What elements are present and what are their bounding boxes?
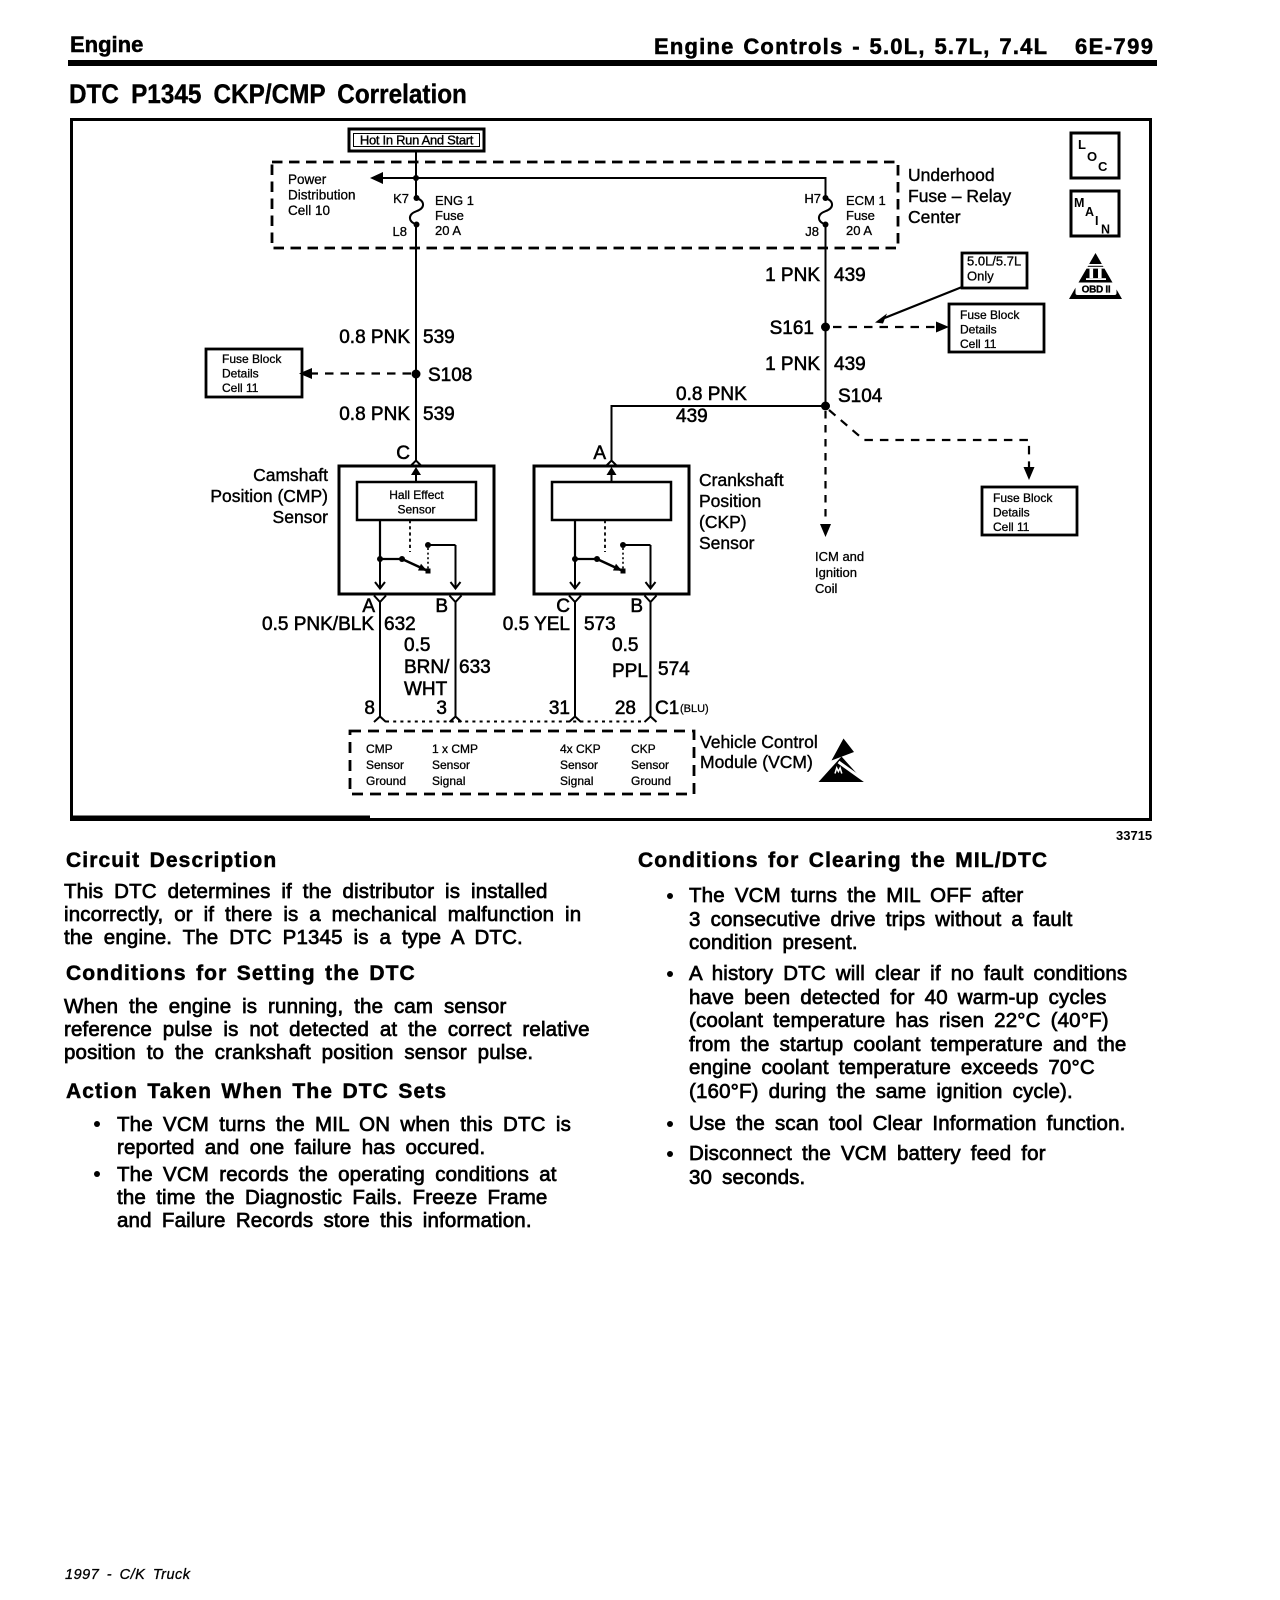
- pin K7: [393, 191, 409, 206]
- svg-text:Sensor: Sensor: [560, 758, 598, 772]
- svg-text:Sensor: Sensor: [397, 503, 435, 517]
- pin C label at CMP sensor: [396, 443, 410, 464]
- svg-text:ICM and: ICM and: [815, 549, 864, 564]
- left column text: [66, 849, 277, 873]
- node: Hot In Run And Start: [349, 129, 484, 151]
- svg-text:632: 632: [384, 614, 416, 635]
- label: 0.8 PNK 439: [676, 384, 747, 427]
- svg-text:8: 8: [364, 698, 375, 719]
- dashed link S108 to left fuse block details: [299, 368, 411, 379]
- wire: 1 PNK 439 from ECM1 fuse to S161: [825, 225, 827, 328]
- svg-text:Vehicle Control: Vehicle Control: [700, 732, 818, 752]
- splice S161: [770, 318, 830, 339]
- node: Fuse Block Details Cell 11 (upper right): [949, 304, 1044, 352]
- svg-text:Details: Details: [993, 506, 1030, 520]
- label: Crankshaft Position (CKP) Sensor: [699, 470, 784, 553]
- fuse ECM 1 20A (H7/J8): [819, 195, 832, 228]
- label: CMP Sensor Ground: [366, 742, 406, 788]
- pin 28 label: [615, 698, 636, 719]
- label: 0.5 PPL 574: [612, 635, 690, 682]
- junction at ENG1 fuse tap: [413, 175, 419, 181]
- connector fork at VCM pin 8: [374, 717, 386, 723]
- label: 4x CKP Sensor Signal: [560, 742, 601, 788]
- svg-text:O: O: [1087, 149, 1097, 164]
- svg-text:28: 28: [615, 698, 636, 719]
- label: 0.8 PNK 539 (upper): [339, 327, 454, 348]
- page title: [69, 79, 467, 110]
- CKP internal arrow from pickup to pin A: [607, 467, 617, 482]
- wire: CKP pin B to VCM pin 28: [650, 602, 652, 717]
- wire down to ENG1 fuse: [415, 178, 417, 198]
- label: 0.5 PNK/BLK 632: [262, 614, 416, 635]
- CKP sensor box: [534, 466, 689, 594]
- svg-text:Coil: Coil: [815, 581, 838, 596]
- connector fork at VCM pin 31: [569, 717, 581, 723]
- svg-text:439: 439: [834, 354, 866, 375]
- label: 0.5 BRN/WHT 633: [404, 635, 491, 700]
- svg-text:1 PNK: 1 PNK: [765, 354, 820, 375]
- label: ENG 1 Fuse 20 A: [435, 193, 474, 238]
- dotted connector face line: [386, 721, 644, 723]
- terminal chevron at CMP pin C: [411, 461, 422, 467]
- svg-text:ENG 1: ENG 1: [435, 193, 474, 208]
- svg-text:S108: S108: [428, 365, 472, 386]
- svg-text:Fuse Block: Fuse Block: [960, 308, 1020, 322]
- svg-text:A: A: [1085, 205, 1094, 219]
- svg-text:633: 633: [459, 657, 491, 678]
- pin 3 label: [436, 698, 447, 719]
- svg-text:539: 539: [423, 327, 455, 348]
- pin 31 label: [549, 698, 570, 719]
- CMP hall effect sensor box: [357, 482, 476, 520]
- svg-text:M: M: [1074, 196, 1084, 210]
- wire: CMP pin A to VCM pin 8: [379, 602, 381, 717]
- symbol: MAIN box: [1071, 191, 1119, 237]
- svg-text:L: L: [1078, 137, 1086, 152]
- svg-text:Fuse Block: Fuse Block: [993, 491, 1053, 505]
- svg-text:Only: Only: [967, 269, 994, 284]
- svg-text:3: 3: [436, 698, 447, 719]
- wire: 0.8 PNK 439 from S104 to CKP sensor pin A: [612, 406, 826, 460]
- svg-text:439: 439: [834, 265, 866, 286]
- svg-text:539: 539: [423, 404, 455, 425]
- svg-text:PPL: PPL: [612, 661, 648, 682]
- node: 5.0L/5.7L Only box: [962, 253, 1027, 288]
- arrow from 5.0L/5.7L Only box to dashed link: [875, 287, 962, 324]
- svg-text:WHT: WHT: [404, 679, 448, 700]
- svg-text:Hall Effect: Hall Effect: [389, 488, 444, 502]
- dashed link S161 to fuse block details: [833, 322, 949, 333]
- pin H7: [804, 191, 821, 206]
- node: Fuse Block Details Cell 11 (left): [206, 349, 302, 397]
- splice S104: [821, 386, 883, 411]
- wire: feed line turns down to ECM1 fuse: [825, 177, 827, 198]
- symbol: OBD II triangle: [1069, 253, 1122, 299]
- svg-text:Position: Position: [699, 491, 761, 511]
- label: Power Distribution Cell 10: [288, 172, 356, 218]
- terminal fork at CMP pin A: [374, 596, 386, 603]
- pin A label below CMP: [362, 596, 375, 617]
- footer: [65, 1567, 191, 1583]
- label: ICM and Ignition Coil: [815, 549, 864, 596]
- terminal fork at CKP pin C: [569, 596, 581, 603]
- VCM dashed box: [350, 731, 694, 794]
- symbol: ESD notice triangles: [819, 739, 867, 783]
- svg-text:L8: L8: [393, 224, 407, 239]
- svg-text:B: B: [435, 596, 448, 617]
- svg-text:Fuse: Fuse: [846, 208, 875, 223]
- header left: Engine: [70, 32, 143, 58]
- wire from Hot In Run box down to feed line: [415, 151, 417, 178]
- label: 0.5 YEL 573: [503, 614, 616, 635]
- svg-text:574: 574: [658, 659, 690, 680]
- svg-text:Ground: Ground: [366, 774, 406, 788]
- wire: CMP pin B to VCM pin 3: [455, 602, 457, 717]
- pin B label below CMP: [435, 596, 448, 617]
- wire: 0.8 PNK 539 from ENG1 fuse through S108 to CMP pin C: [415, 225, 417, 461]
- svg-text:573: 573: [584, 614, 616, 635]
- svg-text:Ground: Ground: [631, 774, 671, 788]
- svg-text:Underhood: Underhood: [908, 165, 995, 185]
- connector C1 (BLU) label: [655, 698, 709, 719]
- label: CKP Sensor Ground: [631, 742, 671, 788]
- label: 1 x CMP Sensor Signal: [432, 742, 478, 788]
- svg-text:Power: Power: [288, 172, 327, 187]
- pin A label at CKP sensor: [593, 443, 606, 464]
- svg-text:20 A: 20 A: [435, 223, 461, 238]
- figure number 33715: [1116, 828, 1152, 843]
- svg-text:ECM 1: ECM 1: [846, 193, 886, 208]
- svg-text:I: I: [1095, 214, 1098, 228]
- svg-text:0.5 YEL: 0.5 YEL: [503, 614, 570, 635]
- svg-text:Sensor: Sensor: [631, 758, 669, 772]
- svg-text:S104: S104: [838, 386, 883, 407]
- svg-text:Fuse Block: Fuse Block: [222, 352, 282, 366]
- svg-text:0.8 PNK: 0.8 PNK: [339, 327, 410, 348]
- svg-text:Camshaft: Camshaft: [253, 465, 328, 485]
- terminal fork at CKP pin B: [645, 596, 657, 603]
- wire: 1 PNK 439 from S161 to S104: [825, 327, 827, 406]
- svg-text:(CKP): (CKP): [699, 512, 747, 532]
- CKP internal switch: [570, 520, 656, 589]
- symbol: LOC box: [1071, 133, 1119, 178]
- label: 1 PNK 439 (lower): [765, 354, 866, 375]
- label: ECM 1 Fuse 20 A: [846, 193, 886, 238]
- svg-text:20 A: 20 A: [846, 223, 872, 238]
- svg-text:A: A: [593, 443, 606, 464]
- dashed drop from S104 to ICM and Ignition Coil: [820, 411, 831, 537]
- svg-text:0.5: 0.5: [404, 635, 430, 656]
- svg-text:Module (VCM): Module (VCM): [700, 752, 813, 772]
- svg-text:0.8 PNK: 0.8 PNK: [676, 384, 747, 405]
- svg-text:Cell 11: Cell 11: [222, 381, 259, 395]
- connector fork at VCM pin 3: [450, 717, 462, 723]
- svg-text:K7: K7: [393, 191, 409, 206]
- svg-text:439: 439: [676, 406, 708, 427]
- CKP pickup box: [552, 482, 671, 520]
- terminal chevron at CKP pin A: [606, 461, 617, 467]
- svg-text:Cell 11: Cell 11: [993, 520, 1030, 534]
- pin C label below CKP: [556, 596, 570, 617]
- wire: CKP pin C to VCM pin 31: [574, 602, 576, 717]
- svg-text:5.0L/5.7L: 5.0L/5.7L: [967, 254, 1021, 269]
- svg-text:1 PNK: 1 PNK: [765, 265, 820, 286]
- label: Vehicle Control Module (VCM): [700, 732, 818, 772]
- svg-text:Distribution: Distribution: [288, 188, 356, 203]
- svg-text:OBD II: OBD II: [1082, 285, 1111, 296]
- node: Fuse Block Details Cell 11 (lower right): [982, 487, 1077, 535]
- diagram frame: [72, 120, 1151, 820]
- right column text: [638, 849, 1048, 873]
- header right: Engine Controls - 5.0L, 5.7L, 7.4L 6E-799: [654, 34, 1048, 60]
- svg-text:Sensor: Sensor: [699, 533, 755, 553]
- svg-text:Fuse: Fuse: [435, 208, 464, 223]
- svg-text:Center: Center: [908, 207, 961, 227]
- label: 1 PNK 439 (upper): [765, 265, 866, 286]
- connector fork at VCM pin 28: [645, 717, 657, 723]
- svg-text:31: 31: [549, 698, 570, 719]
- header rule: [68, 60, 1157, 66]
- svg-text:1 x CMP: 1 x CMP: [432, 742, 478, 756]
- wire: feed line with left arrow to Power Distribution: [370, 172, 826, 184]
- svg-text:H7: H7: [804, 191, 821, 206]
- label: Underhood Fuse-Relay Center: [908, 165, 1011, 227]
- CMP internal arrow from hall sensor to pin C: [411, 467, 421, 482]
- pin J8: [805, 224, 819, 239]
- svg-text:Cell 11: Cell 11: [960, 337, 997, 351]
- pin L8: [393, 224, 407, 239]
- splice S108: [412, 365, 473, 386]
- svg-text:C: C: [1098, 159, 1108, 174]
- svg-text:Position (CMP): Position (CMP): [210, 486, 328, 506]
- svg-text:Ignition: Ignition: [815, 565, 857, 580]
- svg-text:(BLU): (BLU): [680, 703, 709, 715]
- svg-text:Sensor: Sensor: [432, 758, 470, 772]
- svg-text:C1: C1: [655, 698, 679, 719]
- Underhood Fuse-Relay Center dashed box: [272, 162, 898, 248]
- svg-text:S161: S161: [770, 318, 814, 339]
- svg-text:Crankshaft: Crankshaft: [699, 470, 784, 490]
- svg-text:Hot In Run And Start: Hot In Run And Start: [360, 133, 474, 148]
- svg-text:Signal: Signal: [432, 774, 465, 788]
- svg-text:Sensor: Sensor: [366, 758, 404, 772]
- svg-text:C: C: [396, 443, 410, 464]
- svg-text:4x CKP: 4x CKP: [560, 742, 601, 756]
- label: 0.8 PNK 539 (lower): [339, 404, 454, 425]
- svg-text:B: B: [630, 596, 643, 617]
- svg-text:Details: Details: [222, 367, 259, 381]
- svg-text:0.8 PNK: 0.8 PNK: [339, 404, 410, 425]
- label: Camshaft Position (CMP) Sensor: [210, 465, 328, 527]
- CMP sensor box: [339, 466, 494, 594]
- svg-text:CKP: CKP: [631, 742, 656, 756]
- svg-text:Details: Details: [960, 323, 997, 337]
- svg-text:0.5: 0.5: [612, 635, 638, 656]
- svg-text:N: N: [1101, 223, 1110, 237]
- svg-text:J8: J8: [805, 224, 819, 239]
- svg-text:Fuse – Relay: Fuse – Relay: [908, 186, 1011, 206]
- svg-text:Signal: Signal: [560, 774, 593, 788]
- svg-text:BRN/: BRN/: [404, 657, 450, 678]
- fuse ENG 1 20A (K7/L8): [410, 195, 423, 228]
- svg-text:Sensor: Sensor: [273, 507, 329, 527]
- svg-text:Cell 10: Cell 10: [288, 203, 330, 218]
- CMP internal switch: [375, 520, 461, 589]
- terminal fork at CMP pin B: [450, 596, 462, 603]
- svg-text:CMP: CMP: [366, 742, 393, 756]
- dashed link S104 to lower fuse block details: [829, 410, 1035, 480]
- pin 8 label: [364, 698, 375, 719]
- svg-text:0.5 PNK/BLK: 0.5 PNK/BLK: [262, 614, 374, 635]
- pin B label below CKP: [630, 596, 643, 617]
